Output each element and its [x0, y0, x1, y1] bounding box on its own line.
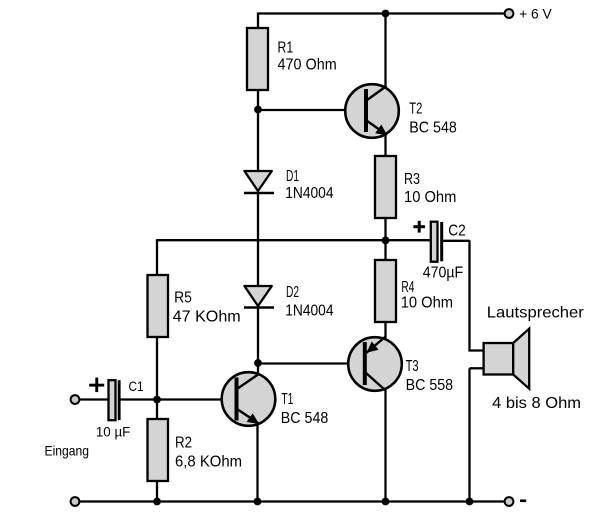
wire T3 collector drop [384, 388, 386, 502]
svg-text:D2: D2 [286, 284, 299, 301]
diode D2 [244, 286, 274, 308]
wire C2 to corner [443, 240, 470, 242]
terminal input [71, 395, 80, 404]
wire D1 to D2 [257, 192, 259, 287]
svg-text:T2: T2 [409, 101, 422, 118]
wire speaker bottom lead [470, 367, 486, 369]
svg-text:+ 6 V: + 6 V [519, 5, 552, 21]
svg-text:C1: C1 [129, 378, 144, 394]
svg-text:BC 548: BC 548 [409, 120, 457, 137]
resistor R2 [148, 419, 169, 481]
wire T2 collector drop [384, 14, 386, 90]
terminal +6V [505, 9, 514, 18]
wire R1 top lead [257, 13, 259, 30]
svg-text:10 µF: 10 µF [96, 424, 130, 440]
label minus [520, 500, 526, 503]
wire R1 bottom to D1 [257, 89, 259, 172]
wire R3 to R4 [384, 217, 386, 261]
svg-text:R4: R4 [401, 279, 414, 296]
resistor R5 [148, 275, 169, 337]
wire R5 top lead [156, 239, 158, 276]
wire bottom rail [79, 500, 505, 502]
wire R4 to T3 emitter [384, 321, 386, 339]
svg-text:T3: T3 [406, 358, 419, 375]
svg-text:1N4004: 1N4004 [285, 185, 333, 202]
svg-text:10 Ohm: 10 Ohm [404, 189, 456, 206]
resistor R1 [247, 28, 268, 90]
node C1 junction [153, 396, 161, 404]
wire C1 to T1 base [121, 398, 237, 400]
svg-text:Eingang: Eingang [45, 443, 90, 459]
svg-text:4 bis 8 Ohm: 4 bis 8 Ohm [492, 395, 581, 412]
svg-text:BC 558: BC 558 [406, 377, 454, 394]
resistor R4 [375, 260, 396, 322]
node bottom rail T3 [382, 498, 390, 506]
node bottom rail T1 [254, 498, 262, 506]
transistor T1 [222, 372, 276, 426]
wire speaker return drop [468, 368, 470, 501]
wire C2 corner down to speaker [468, 240, 470, 351]
svg-text:470 Ohm: 470 Ohm [278, 57, 337, 74]
svg-text:10 Ohm: 10 Ohm [401, 295, 453, 312]
svg-text:R2: R2 [175, 435, 192, 452]
transistor T2 [345, 84, 399, 138]
svg-text:Lautsprecher: Lautsprecher [487, 305, 585, 322]
transistor T3 [348, 337, 402, 391]
diode D1 [244, 171, 274, 193]
svg-text:470µF: 470µF [423, 264, 463, 281]
wire top rail +6V [258, 12, 505, 14]
wire R2 bottom lead [156, 480, 158, 502]
terminal bottom right minus [505, 497, 514, 506]
wire D2 to T1 collector [257, 307, 259, 378]
wire input to C1 [79, 398, 109, 400]
svg-text:T1: T1 [281, 391, 293, 408]
wire R5 to R2 [156, 336, 158, 420]
svg-text:1N4004: 1N4004 [285, 303, 333, 320]
svg-text:47 KOhm: 47 KOhm [173, 309, 241, 326]
capacitor C1 [89, 378, 120, 421]
node T1 collector junction [254, 359, 262, 367]
svg-text:D1: D1 [286, 168, 299, 185]
wire T3 base [258, 362, 364, 364]
node R1 bottom junction [254, 106, 262, 114]
svg-text:C2: C2 [448, 223, 466, 240]
svg-text:BC 548: BC 548 [281, 410, 329, 427]
svg-text:R5: R5 [174, 289, 192, 306]
node bottom rail R2 [153, 498, 161, 506]
svg-text:R3: R3 [404, 171, 420, 188]
terminal bottom left [71, 497, 80, 506]
svg-text:6,8 KOhm: 6,8 KOhm [175, 454, 242, 471]
wire speaker top lead [469, 349, 486, 351]
svg-text:R1: R1 [278, 40, 294, 57]
capacitor C2 [413, 221, 443, 262]
node top rail junction [382, 10, 390, 18]
wire T1 emitter drop [256, 421, 258, 502]
speaker [484, 329, 530, 389]
wire T2 base [258, 109, 366, 111]
node R3 R4 junction [382, 237, 390, 245]
wire mid rail [157, 239, 432, 241]
wire T2 emitter to R3 [384, 130, 386, 157]
node bottom rail speaker [466, 498, 474, 506]
resistor R3 [375, 156, 396, 218]
